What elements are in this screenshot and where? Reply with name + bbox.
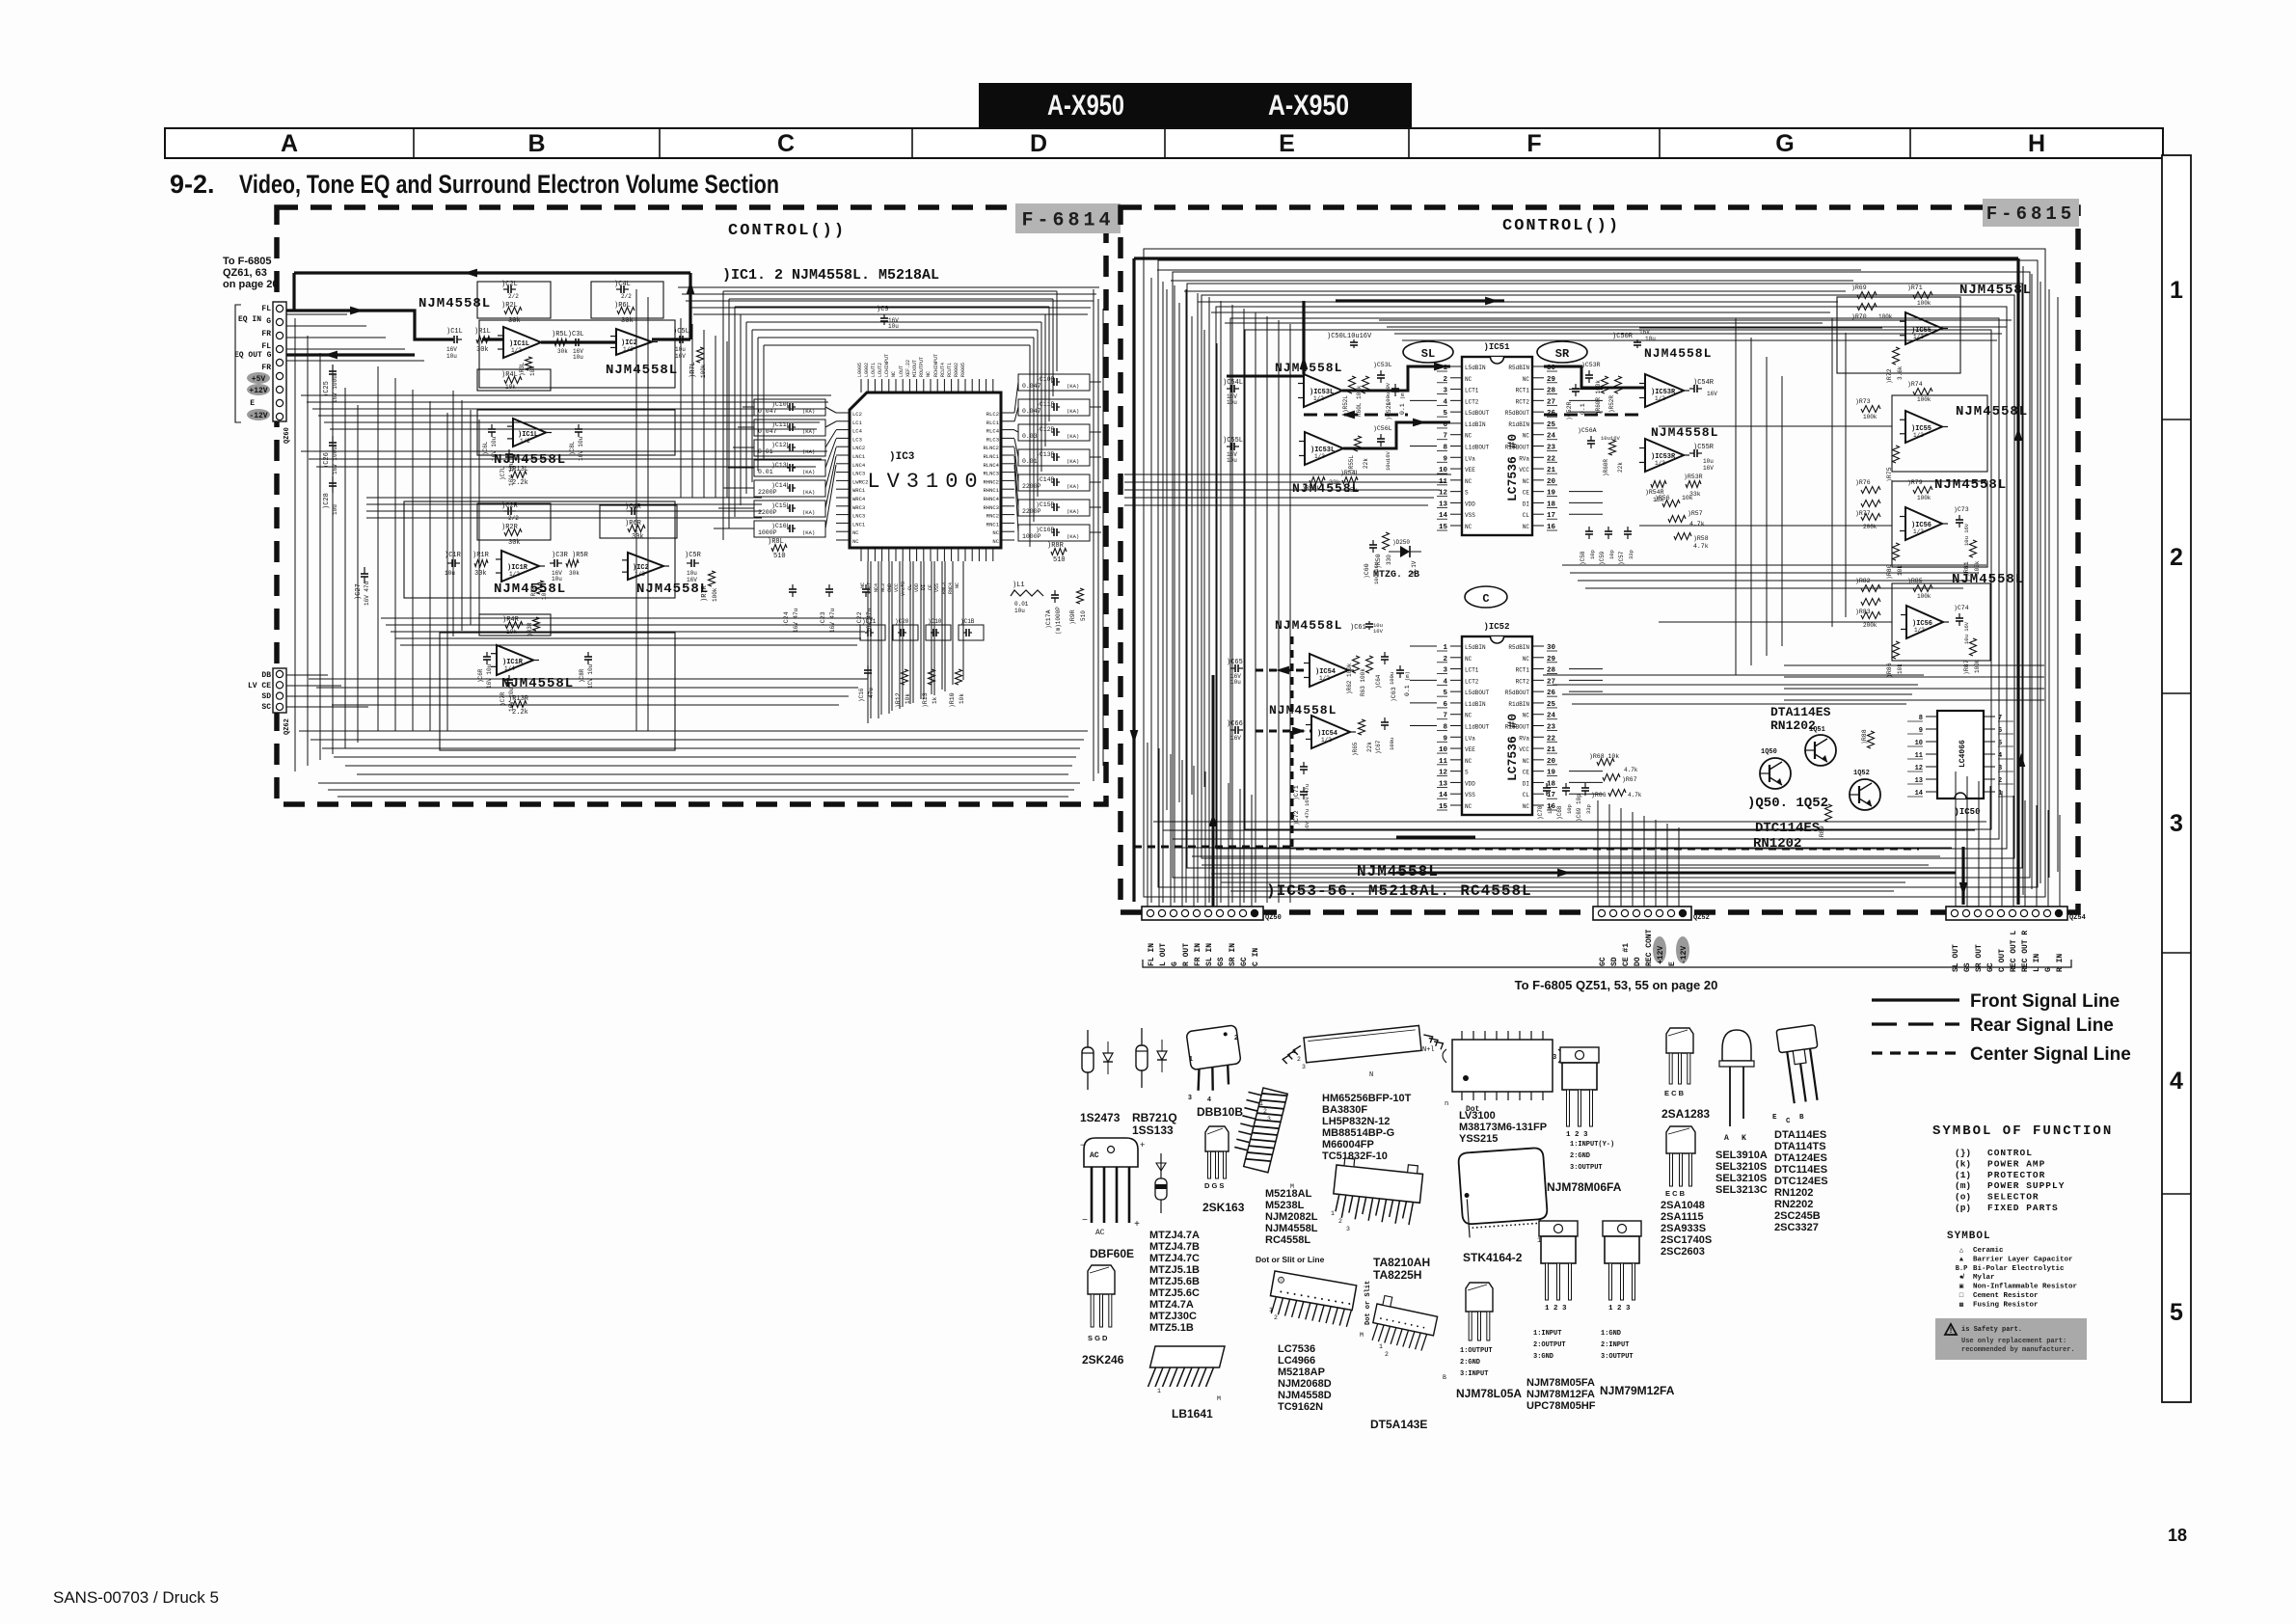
- wire bus right drop: [1037, 330, 1039, 497]
- svg-text:LCT2: LCT2: [1465, 398, 1479, 405]
- svg-text:SELECTOR: SELECTOR: [1987, 1192, 2039, 1203]
- svg-text:16V 47u: 16V 47u: [793, 608, 799, 633]
- svg-text:RLC2: RLC2: [986, 411, 999, 418]
- svg-text:R1dBIN: R1dBIN: [1508, 421, 1529, 428]
- wire LV3100 bottom drop: [920, 561, 922, 699]
- LV3100 left pin: [836, 530, 850, 532]
- wire bottom mid band: [324, 695, 849, 697]
- svg-text:RLC4: RLC4: [986, 428, 1000, 435]
- svg-text:NC: NC: [1465, 713, 1472, 719]
- wire bus top horizontal: [723, 290, 1057, 292]
- IC51 LC7536 body: [1462, 357, 1532, 535]
- zone divider: [2162, 952, 2191, 954]
- svg-text:WRC1: WRC1: [852, 487, 866, 494]
- wire drop to QZ52: [1597, 800, 1599, 907]
- capacitor C25: [332, 365, 334, 371]
- svg-text:M5218AL: M5218AL: [1265, 1188, 1312, 1200]
- wire LV3100 drop extra: [870, 561, 872, 718]
- svg-text:−: −: [1080, 1141, 1085, 1150]
- svg-text:B: B: [1443, 1374, 1446, 1381]
- capacitor C50L: [1353, 339, 1355, 342]
- wire top band F6815: [1394, 333, 2002, 335]
- svg-text:LC2: LC2: [852, 411, 862, 418]
- resistor R71: [1913, 292, 1932, 299]
- LV3100 left pin: [836, 437, 850, 439]
- svg-text:100u20V: 100u20V: [1385, 382, 1391, 405]
- wire connector feed: [286, 348, 405, 350]
- resistor R75 vertical: [1893, 446, 1900, 463]
- wire left bundle F6815: [1278, 320, 1280, 903]
- svg-text:)R10: )R10: [949, 692, 956, 708]
- svg-text:WRC3: WRC3: [852, 504, 865, 511]
- svg-text:2SA1115: 2SA1115: [1661, 1211, 1704, 1223]
- wire IC52 right pin link: [1569, 793, 1603, 795]
- svg-text:3: 3: [1188, 1095, 1192, 1101]
- capacitor C58: [1588, 527, 1590, 531]
- resistor R81 vertical: [1970, 540, 1977, 557]
- capacitor C1L: [449, 338, 454, 340]
- wire left-mid vertical2: [470, 410, 472, 625]
- svg-text:C: C: [777, 130, 795, 157]
- wire right mid band: [1562, 693, 1912, 695]
- svg-text:)C72: )C72: [1293, 810, 1300, 826]
- svg-text:SEL3213C: SEL3213C: [1715, 1184, 1768, 1196]
- resistor R3R vertical: [537, 581, 544, 594]
- LV3100 bottom pin: [874, 548, 876, 561]
- svg-text:R5dBOUT: R5dBOUT: [1505, 690, 1530, 696]
- wire drop to QZ52: [1608, 804, 1610, 907]
- svg-text:1:INPUT: 1:INPUT: [1533, 1330, 1561, 1338]
- resistor R72 vertical: [1893, 347, 1900, 365]
- wire cap box to LV3100: [825, 465, 836, 528]
- package MTZ diode: [1160, 1153, 1162, 1213]
- svg-text:VDD: VDD: [914, 583, 920, 592]
- svg-text:DBF60E: DBF60E: [1090, 1247, 1134, 1260]
- svg-text:R5dBOUT: R5dBOUT: [1505, 410, 1530, 417]
- wire mid band: [301, 394, 831, 396]
- svg-text:Use only replacement part:: Use only replacement part:: [1961, 1338, 2066, 1345]
- net label SL oval: [1403, 341, 1453, 363]
- LV3100 bottom pin: [902, 548, 904, 561]
- svg-text:R0005: R0005: [960, 363, 966, 377]
- wire drop to QZ54: [1955, 771, 1957, 907]
- LV3100 bottom pin: [930, 548, 932, 561]
- svg-text:FR IN: FR IN: [1194, 943, 1202, 966]
- svg-text:F: F: [1526, 130, 1541, 157]
- wire to cap box: [738, 426, 754, 428]
- resistor R6R: [628, 526, 645, 532]
- svg-text:)C21: )C21: [862, 618, 877, 625]
- svg-text:LOUT1: LOUT1: [871, 363, 877, 377]
- LV3100 left pin: [836, 454, 850, 456]
- LV3100 top pin: [978, 379, 980, 392]
- wire bottom connector feed: [286, 674, 328, 676]
- connector QZ60 strip: [273, 302, 286, 421]
- capacitor C11L box: [754, 420, 825, 436]
- bold vertical drop at 305: [292, 273, 295, 311]
- capacitor C28: [332, 476, 334, 483]
- wire bus right drop: [1029, 345, 1031, 547]
- svg-text:)C54L: )C54L: [1223, 379, 1243, 387]
- svg-text:NC: NC: [1523, 478, 1530, 485]
- wire to cap box: [743, 406, 754, 408]
- wire left vertical bundle: [1191, 316, 1193, 795]
- svg-text:VCC: VCC: [1519, 467, 1529, 474]
- inductor L1: [1011, 590, 1043, 596]
- connector QZ60 pin: [276, 399, 283, 406]
- wire lower band: [395, 637, 861, 639]
- svg-text:)R77: )R77: [1855, 510, 1871, 517]
- svg-text:CONTROL()): CONTROL()): [1502, 217, 1620, 235]
- wire LV3100 drop extra: [891, 561, 893, 711]
- package STK4164-2: [1458, 1148, 1549, 1242]
- svg-text:510: 510: [773, 553, 786, 560]
- resistor R2L: [504, 308, 522, 314]
- svg-text:510: 510: [1053, 556, 1066, 564]
- arrow right bottom run: [1557, 869, 1571, 878]
- svg-text:POWER AMP: POWER AMP: [1987, 1158, 2045, 1169]
- svg-text:)C67: )C67: [1375, 740, 1382, 754]
- svg-text:)R56: )R56: [1655, 495, 1670, 501]
- arrow right into pin1: [1434, 363, 1447, 371]
- svg-text:RCHINPUT: RCHINPUT: [933, 354, 939, 377]
- wire bus left drop: [745, 322, 747, 494]
- wire LV3100 to right cap box: [1014, 382, 1018, 413]
- connector QZ60 pin: [276, 345, 283, 352]
- wire bottom bus: [1163, 829, 1975, 831]
- zone divider: [2162, 692, 2191, 694]
- IC50 right pin: [1984, 741, 1995, 743]
- svg-text:Ceramic: Ceramic: [1973, 1247, 2004, 1255]
- svg-text:LVa: LVa: [1465, 735, 1475, 742]
- resistor R52R vertical: [1615, 376, 1622, 393]
- resistor R66b: [1608, 790, 1626, 797]
- bold loop top: [1134, 257, 2018, 259]
- wire drop to QZ50: [1239, 789, 1241, 907]
- svg-text:DT5A143E: DT5A143E: [1370, 1418, 1427, 1431]
- svg-text:1/2: 1/2: [1321, 737, 1332, 744]
- svg-text:RHNC1: RHNC1: [983, 487, 999, 494]
- grid band divider: [1408, 128, 1410, 158]
- svg-text:NJM78M05FA: NJM78M05FA: [1526, 1377, 1595, 1389]
- svg-text:Mylar: Mylar: [1973, 1274, 1995, 1282]
- grid band divider: [659, 128, 661, 158]
- connector QZ60 pin: [276, 305, 283, 311]
- wire top distribution: [1198, 301, 1838, 303]
- grid band divider: [1164, 128, 1166, 158]
- svg-text:SEL3210S: SEL3210S: [1715, 1173, 1767, 1184]
- svg-text:NJM4558L: NJM4558L: [1265, 1223, 1318, 1234]
- svg-text:16V 10u: 16V 10u: [491, 436, 498, 461]
- IC50 right pin: [1984, 728, 1995, 730]
- net label C oval: [1465, 586, 1507, 608]
- wire bus top horizontal: [764, 344, 1030, 346]
- wire IC51 left pin link: [1410, 399, 1437, 401]
- wire to cap box: [718, 507, 754, 509]
- resistor R60L vertical: [1363, 376, 1369, 393]
- LV3100 right pin: [1001, 522, 1014, 524]
- wire bus top horizontal: [758, 337, 1034, 338]
- wire SL lower band: [1124, 474, 1451, 475]
- svg-text:(KA): (KA): [1067, 533, 1079, 540]
- svg-text:R1dBIN: R1dBIN: [1508, 701, 1529, 708]
- svg-text:)R62 100k: )R62 100k: [1346, 663, 1353, 694]
- LV3100 top pin: [888, 379, 890, 392]
- svg-text:)R1R: )R1R: [473, 552, 490, 559]
- wire bottom extra: [328, 789, 1074, 791]
- svg-text:M38173M6-131FP: M38173M6-131FP: [1459, 1122, 1547, 1133]
- svg-text:2/2: 2/2: [508, 293, 519, 300]
- stage box L row: [479, 320, 675, 388]
- wire IC51 right pin link: [1569, 389, 1603, 391]
- svg-text:RLC1: RLC1: [986, 420, 1000, 426]
- svg-text:)R67: )R67: [1622, 776, 1637, 783]
- wire cap box to LV3100: [825, 407, 836, 413]
- svg-text:S: S: [1465, 770, 1469, 776]
- connector QZ54: [1946, 907, 2067, 920]
- pin label -12V circled: [247, 409, 270, 420]
- wire left-mid vertical: [446, 413, 448, 731]
- IC50 right pin: [1984, 753, 1995, 755]
- wire top distribution: [1184, 290, 1846, 292]
- wire loop rectangle: [1144, 249, 2045, 897]
- svg-text:100k: 100k: [1917, 300, 1931, 307]
- svg-text:SR IN: SR IN: [1229, 943, 1237, 966]
- svg-text:RLC3: RLC3: [986, 436, 999, 443]
- svg-text:RCT1: RCT1: [1516, 388, 1530, 394]
- wire LV3100 to right cap box: [1014, 407, 1018, 421]
- svg-text:R OUT: R OUT: [1182, 943, 1191, 966]
- svg-text:A: A: [1724, 1134, 1729, 1143]
- black title banner: [979, 83, 1412, 127]
- svg-text:Dot or Slit: Dot or Slit: [1364, 1281, 1372, 1325]
- LV3100 left pin: [836, 412, 850, 414]
- svg-text:1: 1: [1189, 1056, 1193, 1063]
- wire drop to QZ52: [1666, 824, 1668, 907]
- svg-text:)C63: )C63: [1391, 687, 1397, 702]
- svg-text:33p: 33p: [1628, 550, 1634, 559]
- svg-text:(KA): (KA): [802, 529, 815, 536]
- resistor R12 vertical: [902, 669, 908, 685]
- svg-text:1/2: 1/2: [1913, 528, 1924, 535]
- resistor R57: [1668, 516, 1686, 523]
- package NJM78L05A: [1466, 1283, 1493, 1312]
- svg-text:4: 4: [1207, 1096, 1211, 1103]
- svg-text:(KA): (KA): [1067, 383, 1079, 390]
- net label SR oval: [1537, 341, 1587, 363]
- svg-text:)C2L: )C2L: [501, 281, 518, 288]
- wire SL lower band: [1124, 481, 1445, 483]
- svg-text:3: 3: [1302, 1064, 1306, 1070]
- svg-text:)R3L: )R3L: [519, 362, 526, 376]
- svg-text:10u: 10u: [888, 323, 899, 330]
- svg-text:)Q50. 1Q52: )Q50. 1Q52: [1747, 796, 1828, 811]
- svg-text:CONTROL: CONTROL: [1987, 1148, 2033, 1158]
- svg-text:VCC: VCC: [894, 583, 900, 592]
- wire left bundle F6815: [1162, 282, 1164, 903]
- svg-text:LNC2: LNC2: [852, 445, 865, 451]
- svg-text:33p: 33p: [1585, 804, 1592, 814]
- connector QZ62 pin: [276, 703, 283, 710]
- svg-text:DI: DI: [1523, 780, 1529, 787]
- stage box R row: [404, 501, 675, 598]
- wire right mid band: [1543, 674, 1924, 676]
- wire left-mid vertical2: [461, 400, 463, 631]
- svg-text:Fusing Resistor: Fusing Resistor: [1973, 1301, 2039, 1309]
- svg-text:RVa: RVa: [1519, 735, 1529, 742]
- capacitor C57: [1627, 527, 1629, 531]
- wire mid band: [324, 421, 820, 423]
- wire LV3100 bottom drop: [962, 561, 964, 680]
- svg-text:4.7k: 4.7k: [1628, 792, 1642, 798]
- svg-text:BA3830F: BA3830F: [1322, 1104, 1367, 1116]
- svg-text:LC7536: LC7536: [1278, 1343, 1315, 1355]
- wire drop to QZ54: [2036, 805, 2038, 907]
- capacitor C7R: [508, 675, 510, 680]
- svg-text:1CV 10u: 1CV 10u: [587, 663, 594, 689]
- svg-text:+: +: [1134, 1220, 1140, 1231]
- svg-text:)C61: )C61: [1350, 624, 1366, 632]
- bold signal vertical to IC2 out: [689, 273, 691, 339]
- svg-text:DTC114ES: DTC114ES: [1755, 821, 1820, 836]
- svg-text:C: C: [1482, 592, 1489, 606]
- LV3100 left pin: [836, 539, 850, 541]
- wire right cap box out: [1090, 381, 1101, 383]
- svg-text:DO: DO: [1634, 957, 1642, 966]
- svg-text:on page 20: on page 20: [223, 279, 278, 290]
- wire to cap box: [733, 447, 754, 448]
- svg-text:1: 1: [1157, 1388, 1161, 1394]
- svg-text:GC: GC: [1240, 957, 1249, 966]
- package TA8210AH: [1331, 1157, 1423, 1226]
- resistor R1R: [474, 560, 488, 567]
- svg-text:1S2473: 1S2473: [1080, 1111, 1121, 1124]
- wire left-mid vertical: [412, 390, 414, 731]
- svg-text:)C53L: )C53L: [1373, 362, 1392, 368]
- svg-text:E C B: E C B: [1664, 1089, 1685, 1097]
- svg-text:LNC1: LNC1: [852, 521, 866, 528]
- svg-text:NJM4558L: NJM4558L: [1651, 425, 1718, 440]
- bold out SR: [1544, 366, 1645, 388]
- package RB721Q/1SS133: [1141, 1028, 1143, 1088]
- wire top right band: [689, 307, 1091, 309]
- stage box IC56a: [1892, 481, 1987, 567]
- board label F-6814: [1015, 203, 1121, 233]
- svg-text:NJM4558L: NJM4558L: [419, 296, 491, 311]
- wire feed block4: [1659, 621, 1892, 623]
- wire bus right drop: [1052, 299, 1054, 396]
- svg-text:SD: SD: [261, 692, 271, 701]
- svg-text:E: E: [1668, 961, 1677, 966]
- LV3100 left pin: [836, 472, 850, 474]
- svg-text:XEF.22: XEF.22: [905, 360, 911, 377]
- svg-text:SYMBOL OF FUNCTION: SYMBOL OF FUNCTION: [1932, 1123, 2113, 1139]
- wire top band F6815: [1387, 326, 2007, 328]
- wire bottom extra: [338, 796, 1068, 798]
- wire bottom bus: [1182, 847, 1952, 849]
- svg-text:1: 1: [1259, 1100, 1263, 1107]
- svg-text:!: !: [1949, 1327, 1954, 1336]
- wire mid band: [307, 401, 828, 403]
- wire bottom connector feed: [286, 685, 341, 687]
- package LC7536 DIP: [1267, 1271, 1356, 1327]
- svg-text:LCT1: LCT1: [1465, 667, 1479, 674]
- stage box IC55b: [1892, 395, 1987, 472]
- capacitor C7L: [508, 449, 510, 454]
- svg-text:QZ60: QZ60: [284, 427, 291, 444]
- svg-text:)R57: )R57: [1688, 510, 1703, 517]
- svg-text:ROUTPUT: ROUTPUT: [919, 357, 925, 377]
- svg-text:G: G: [1775, 130, 1794, 157]
- wire connector feed: [286, 325, 366, 327]
- wire top band F6815: [1402, 339, 1997, 341]
- op-amp IC54: [1310, 654, 1348, 687]
- svg-text:▣: ▣: [1959, 1284, 1963, 1291]
- svg-text:N: N: [1369, 1071, 1373, 1079]
- svg-text:LC4066: LC4066: [1958, 740, 1967, 768]
- svg-text:)R7L: )R7L: [689, 362, 697, 378]
- wire center vertical: [680, 318, 682, 498]
- wire drop to QZ54: [2012, 796, 2014, 907]
- LV3100 bottom pin: [860, 548, 862, 561]
- svg-text:)C8L: )C8L: [569, 441, 576, 455]
- svg-text:)R60R 100k: )R60R 100k: [1595, 380, 1602, 415]
- wire LV3100 drop extra: [880, 561, 882, 715]
- svg-text:TA8225H: TA8225H: [1373, 1268, 1421, 1282]
- wire cap box to LV3100: [825, 456, 836, 508]
- transistor Q51: [1805, 735, 1836, 766]
- resistor R8R: [1051, 549, 1067, 555]
- svg-text:TA8210AH: TA8210AH: [1373, 1256, 1430, 1269]
- capacitor C66: [1230, 729, 1235, 731]
- svg-text:L1dBOUT: L1dBOUT: [1465, 724, 1490, 731]
- capacitor C67: [1384, 717, 1386, 722]
- wire center vertical: [703, 330, 705, 498]
- wire band y470: [309, 458, 822, 460]
- LV3100 top pin: [867, 379, 869, 392]
- wire loop rectangle: [1245, 330, 1991, 829]
- wire mid bus: [366, 503, 762, 505]
- capacitor C68: [1565, 783, 1567, 788]
- resistor R80 vertical: [1893, 543, 1900, 560]
- svg-text:18: 18: [2168, 1526, 2187, 1545]
- svg-text:M: M: [1217, 1395, 1221, 1402]
- IC50 LC4066 body: [1937, 711, 1984, 798]
- svg-text:LC4966: LC4966: [1278, 1355, 1315, 1367]
- wire bus left drop: [734, 307, 736, 517]
- zone divider: [2162, 1193, 2191, 1195]
- svg-text:NC: NC: [1523, 656, 1530, 663]
- svg-text:DTA114ES: DTA114ES: [1770, 705, 1831, 719]
- svg-text:L OUT: L OUT: [1159, 943, 1168, 966]
- svg-text:NJM4558L: NJM4558L: [1952, 572, 2024, 587]
- svg-text:)C55R: )C55R: [1693, 444, 1715, 451]
- svg-text:1:INPUT(Y-): 1:INPUT(Y-): [1570, 1141, 1614, 1149]
- svg-text:2SK246: 2SK246: [1082, 1353, 1124, 1367]
- svg-text:K: K: [1742, 1134, 1746, 1143]
- svg-text:)C16: )C16: [858, 688, 865, 702]
- wire bottom extra: [318, 782, 1080, 784]
- svg-text:RNC1: RNC1: [986, 521, 1000, 528]
- svg-text:VEE: VEE: [1465, 746, 1475, 753]
- svg-text:MTZJ5.6C: MTZJ5.6C: [1149, 1287, 1200, 1299]
- resistor R53R: [1686, 481, 1701, 488]
- svg-text:NC: NC: [1465, 478, 1472, 485]
- svg-text:1/2: 1/2: [1319, 675, 1330, 682]
- svg-text:)R66: )R66: [1591, 792, 1607, 798]
- svg-text:LCHINPUT: LCHINPUT: [884, 354, 890, 377]
- svg-text:SL OUT: SL OUT: [1952, 944, 1960, 972]
